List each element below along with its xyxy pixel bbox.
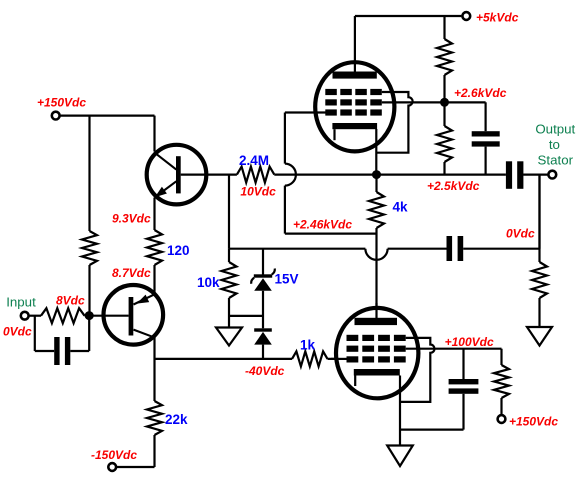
svg-text:8Vdc: 8Vdc xyxy=(56,293,85,307)
svg-text:+2.5kVdc: +2.5kVdc xyxy=(427,179,480,193)
svg-text:+2.46kVdc: +2.46kVdc xyxy=(293,217,352,231)
svg-text:Input: Input xyxy=(6,295,36,310)
svg-text:0Vdc: 0Vdc xyxy=(3,325,32,339)
svg-text:-40Vdc: -40Vdc xyxy=(245,364,285,378)
svg-text:2.4M: 2.4M xyxy=(239,153,269,168)
svg-text:8.7Vdc: 8.7Vdc xyxy=(112,266,151,280)
svg-text:Output: Output xyxy=(535,122,575,137)
svg-text:Stator: Stator xyxy=(538,153,574,168)
svg-text:22k: 22k xyxy=(165,412,188,427)
svg-text:-150Vdc: -150Vdc xyxy=(91,448,137,462)
svg-text:15V: 15V xyxy=(275,272,299,287)
svg-text:120: 120 xyxy=(167,243,190,258)
svg-text:4k: 4k xyxy=(393,200,409,215)
svg-text:to: to xyxy=(549,137,560,152)
svg-text:+100Vdc: +100Vdc xyxy=(445,335,494,349)
svg-text:+2.6kVdc: +2.6kVdc xyxy=(454,86,507,100)
svg-text:10Vdc: 10Vdc xyxy=(240,185,276,199)
svg-text:1k: 1k xyxy=(300,338,316,353)
svg-text:+150Vdc: +150Vdc xyxy=(509,415,558,429)
svg-text:0Vdc: 0Vdc xyxy=(506,226,535,240)
svg-text:+150Vdc: +150Vdc xyxy=(37,96,86,110)
svg-text:+5kVdc: +5kVdc xyxy=(476,11,519,25)
svg-text:10k: 10k xyxy=(197,275,220,290)
svg-text:9.3Vdc: 9.3Vdc xyxy=(112,212,151,226)
